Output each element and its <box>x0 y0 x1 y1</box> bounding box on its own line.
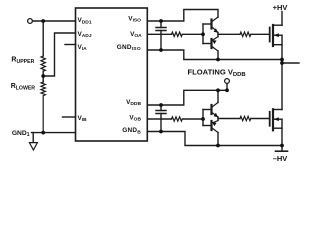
svg-text:–HV: –HV <box>273 154 288 163</box>
svg-text:VOA: VOA <box>130 31 142 39</box>
svg-text:RLOWER: RLOWER <box>11 83 36 91</box>
svg-text:VADJ: VADJ <box>78 31 92 39</box>
svg-text:VDDB: VDDB <box>126 99 141 107</box>
svg-text:GND1: GND1 <box>12 130 30 138</box>
svg-text:GNDB: GNDB <box>122 127 141 135</box>
svg-text:+HV: +HV <box>273 3 288 12</box>
svg-text:VISO: VISO <box>128 15 141 23</box>
svg-text:RUPPER: RUPPER <box>11 57 34 65</box>
svg-text:FLOATING VDDB: FLOATING VDDB <box>188 67 246 78</box>
svg-text:VIB: VIB <box>78 115 88 123</box>
svg-text:GNDISO: GNDISO <box>117 44 141 52</box>
svg-text:VIA: VIA <box>78 44 88 52</box>
svg-text:VDD1: VDD1 <box>78 17 92 25</box>
svg-text:VOB: VOB <box>129 115 141 123</box>
